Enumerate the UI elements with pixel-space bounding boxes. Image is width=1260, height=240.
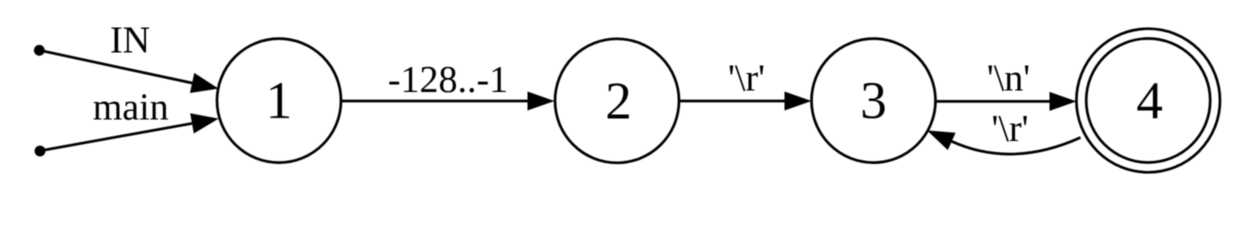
edge 1 to 2 [342,92,555,111]
svg-text:2: 2 [605,72,632,130]
svg-text:4: 4 [1136,72,1163,130]
edge main: start to state 1 [44,113,219,150]
svg-text:'\r': '\r' [992,108,1029,150]
state 4 accepting outer circle [1076,29,1220,173]
state 1 [217,39,341,163]
edge IN: start to state 1 [42,51,219,93]
start dot main [35,146,46,157]
svg-text:IN: IN [110,20,150,62]
svg-text:1: 1 [266,72,293,130]
svg-text:-128..-1: -128..-1 [388,59,508,101]
state 4 accepting inner circle [1086,39,1210,163]
svg-text:'\n': '\n' [987,58,1030,100]
state 3 [812,39,936,163]
start dot IN [34,45,45,56]
edge 2 to 3 [679,92,812,111]
svg-text:'\r': '\r' [728,58,765,100]
svg-text:main: main [93,87,169,129]
edge 4 to 3 return [927,130,1081,154]
svg-text:3: 3 [860,72,887,130]
state 2 [555,39,679,163]
edge 3 to 4 [936,92,1077,111]
